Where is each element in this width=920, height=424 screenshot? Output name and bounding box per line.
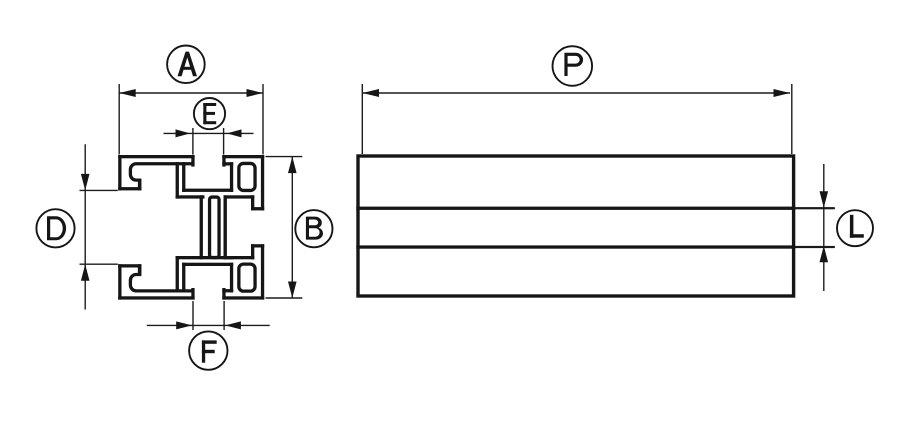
right tooth inner vertical: [251, 195, 254, 210]
bottom slot right wall: [222, 288, 225, 300]
central screw channel slot: [210, 197, 220, 257]
letter L: [850, 215, 864, 238]
dim L line: [823, 164, 825, 291]
profile top face left segment: [118, 155, 194, 158]
ledge line L1 lower (continuous): [176, 256, 234, 259]
dim A arrowhead right: [247, 89, 264, 97]
letter E: [203, 103, 216, 124]
lower right tooth inner vertical: [251, 244, 254, 259]
upper-left hook inner contour: [130, 164, 193, 189]
dim B line: [291, 157, 293, 298]
dim D arrowhead top: [81, 174, 90, 191]
lower-left block top line: [118, 264, 141, 267]
dim P extension line left: [361, 84, 363, 154]
dim E arrowhead right: [227, 129, 242, 137]
dim B arrowhead bottom: [288, 282, 297, 299]
letter A: [178, 52, 198, 77]
dim L tick extension lower: [795, 246, 835, 248]
letter D: [47, 216, 66, 240]
upper-right rounded hole: [239, 163, 255, 190]
profile outer left edge lower: [118, 264, 121, 299]
bottom slot left wall: [191, 288, 194, 300]
dim E extension line right: [223, 128, 225, 155]
dim A line: [119, 92, 263, 94]
side view groove line lower: [356, 245, 795, 248]
dim L arrowhead top: [820, 191, 829, 208]
dim E arrowhead left: [176, 129, 191, 137]
dim E extension line left: [192, 128, 194, 155]
label circle P: [553, 46, 593, 86]
profile top face right segment: [222, 155, 264, 158]
groove line upper extension tick: [795, 207, 834, 209]
top slot left wall: [191, 155, 194, 167]
dim P arrowhead right: [774, 89, 791, 97]
dim F extension line right: [223, 301, 225, 330]
letter B: [306, 217, 323, 240]
upper-left block bottom line: [118, 187, 141, 190]
inner vertical B lower: [176, 256, 179, 293]
dim A extension line left: [118, 84, 120, 155]
dim F line: [147, 324, 270, 326]
dim D extension line bottom: [80, 263, 118, 265]
label circle D: [36, 209, 74, 247]
T-cavity top right nub: [222, 162, 233, 165]
dim F arrowhead right: [225, 321, 241, 329]
dim D line: [84, 144, 86, 309]
dim L arrowhead bottom: [820, 246, 829, 262]
ledge line L1 (web left shoulder): [176, 195, 205, 198]
dim A arrowhead left: [119, 89, 136, 97]
dim P extension line right: [791, 84, 793, 154]
profile outer right edge lower: [261, 244, 264, 299]
right tooth bottom line: [251, 207, 264, 210]
profile outer left edge upper: [118, 155, 121, 190]
profile outer right edge upper: [261, 155, 264, 210]
web left face: [200, 195, 203, 259]
T-cavity bottom line: [182, 189, 233, 192]
bottom T-cavity right nub: [222, 289, 233, 292]
bottom face right segment: [222, 296, 264, 299]
dim B extension line top: [266, 156, 303, 158]
inner vertical B (left of T-cavity): [176, 162, 179, 199]
letter F: [202, 340, 217, 362]
label circle B: [295, 210, 332, 247]
dim P line: [363, 92, 791, 94]
label circle E: [194, 98, 225, 129]
dim F arrowhead left: [176, 321, 192, 329]
dim E line: [164, 132, 254, 134]
letter P: [564, 53, 583, 76]
label circle L: [837, 210, 873, 246]
web right face: [224, 195, 227, 259]
dim P arrowhead left: [363, 89, 380, 97]
lower-left hook stub: [138, 264, 142, 276]
lower right tooth top line: [251, 244, 264, 247]
T-cavity right wall: [230, 162, 233, 192]
top slot right wall: [222, 155, 225, 167]
bottom T-cavity right wall: [230, 263, 233, 293]
dim B arrowhead top: [288, 157, 297, 174]
lower right tooth bottom line: [224, 256, 255, 259]
dim D arrowhead bottom: [81, 264, 90, 281]
side view groove line upper: [356, 207, 795, 210]
groove line lower extension tick: [795, 246, 834, 248]
label circle F: [189, 331, 227, 369]
right tooth top line: [224, 195, 255, 198]
dim D extension line top: [80, 189, 118, 191]
bottom T-cavity left wall: [182, 263, 185, 293]
dim L tick extension upper: [795, 207, 835, 209]
lower-left hook inner contour: [130, 266, 193, 291]
label circle A: [167, 46, 205, 84]
bottom T-cavity top line: [182, 263, 233, 266]
side view outer box: [358, 156, 794, 296]
lower-right rounded hole: [239, 264, 255, 291]
dim B extension line bottom: [266, 297, 303, 299]
upper-left hook stub: [138, 179, 142, 191]
dim F extension line left: [192, 301, 194, 330]
T-cavity left wall: [182, 162, 185, 192]
bottom face left segment: [118, 296, 194, 299]
dim A extension line right: [262, 84, 264, 155]
